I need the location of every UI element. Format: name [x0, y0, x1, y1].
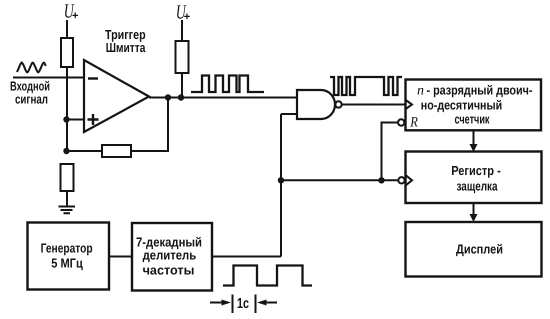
waveform: gated pulse bursts	[330, 77, 402, 95]
svg-text:Регистр -: Регистр -	[451, 163, 501, 178]
divider box	[132, 223, 212, 291]
wire: R3 to ground	[66, 191, 68, 206]
svg-text:+: +	[72, 10, 78, 22]
wire: feedback resistor to output	[131, 98, 168, 152]
op-amp minus input sign	[88, 77, 98, 79]
wire R1 bottom down through input line to node B	[66, 67, 68, 151]
node: output junction dot 2	[178, 94, 184, 100]
node: junction at riser and latch line	[278, 177, 284, 183]
svg-text:1с: 1с	[237, 296, 249, 312]
wire U+ right down to R4	[181, 20, 183, 41]
register latch input bubble	[398, 177, 404, 183]
wire: junction up to counter R input	[382, 123, 399, 181]
input sine waveform symbol	[17, 63, 46, 73]
resistor R1	[61, 38, 73, 67]
wire: divider signal to NAND lower input	[281, 113, 297, 115]
node A (junction dot)	[63, 116, 69, 122]
svg-text:Шмитта: Шмитта	[106, 40, 146, 55]
svg-text:но-десятичный: но-десятичный	[421, 97, 502, 112]
waveform: Schmitt trigger output pulses	[191, 76, 264, 93]
svg-text:5 МГц: 5 МГц	[51, 256, 83, 271]
power label U+ (left)	[64, 0, 79, 22]
waveform: 1 second gate pulse	[223, 266, 312, 286]
arrow: counter to register latch	[473, 130, 475, 145]
wire: generator to divider	[109, 256, 132, 258]
svg-text:- разрядный двоич-: - разрядный двоич-	[427, 82, 533, 97]
ground	[59, 207, 76, 214]
register-latch box	[406, 152, 542, 204]
resistor R3 (to ground)	[61, 164, 74, 191]
node: output junction dot 1	[165, 94, 171, 100]
svg-text:частоты: частоты	[143, 262, 195, 277]
wire: gate line to register latch	[281, 179, 398, 181]
counter R input bubble	[398, 119, 404, 125]
power label U+ (right)	[176, 2, 190, 24]
op-amp U1 (Schmitt trigger)	[84, 60, 149, 132]
dimension marker 1c	[210, 295, 277, 314]
svg-text:счетчик: счетчик	[455, 111, 490, 126]
counter clock input arrow	[405, 100, 412, 110]
resistor R4 (output pull-up)	[176, 41, 189, 73]
node: junction to counter reset	[378, 177, 384, 183]
wire R4 to output line	[181, 73, 183, 98]
wire: divider output to riser	[212, 256, 281, 258]
generator box	[28, 223, 110, 290]
svg-text:+: +	[184, 11, 190, 23]
svg-text:делитель: делитель	[143, 248, 197, 263]
wire: divider output vertical riser	[280, 114, 282, 257]
counter box	[406, 80, 542, 131]
wire U+ left down to R1	[66, 20, 68, 38]
resistor R2 (feedback)	[102, 145, 131, 157]
wire: op-amp output to NAND input	[149, 97, 297, 99]
label: Триггер Шмитта	[105, 27, 146, 55]
svg-text:R: R	[409, 114, 418, 130]
NAND gate U2	[297, 90, 335, 119]
arrow: register latch to display	[473, 203, 475, 215]
register latch input arrow	[405, 175, 412, 186]
op-amp plus input sign	[88, 114, 99, 125]
svg-text:защелка: защелка	[457, 178, 499, 193]
label: Входной сигнал	[10, 79, 50, 107]
wire: node A to op-amp non-inverting input	[66, 119, 84, 121]
NAND output bubble	[335, 101, 341, 107]
svg-text:сигнал: сигнал	[15, 91, 48, 106]
svg-text:Дисплей: Дисплей	[456, 242, 503, 257]
wire: NAND output to counter clock	[342, 104, 406, 106]
wire: node B to feedback resistor	[66, 150, 102, 152]
wire: input signal to op-amp inverting input	[13, 77, 84, 79]
node B (junction dot)	[63, 148, 69, 154]
display box	[406, 222, 542, 277]
svg-text:n: n	[417, 83, 424, 98]
svg-text:Генератор: Генератор	[41, 241, 93, 256]
